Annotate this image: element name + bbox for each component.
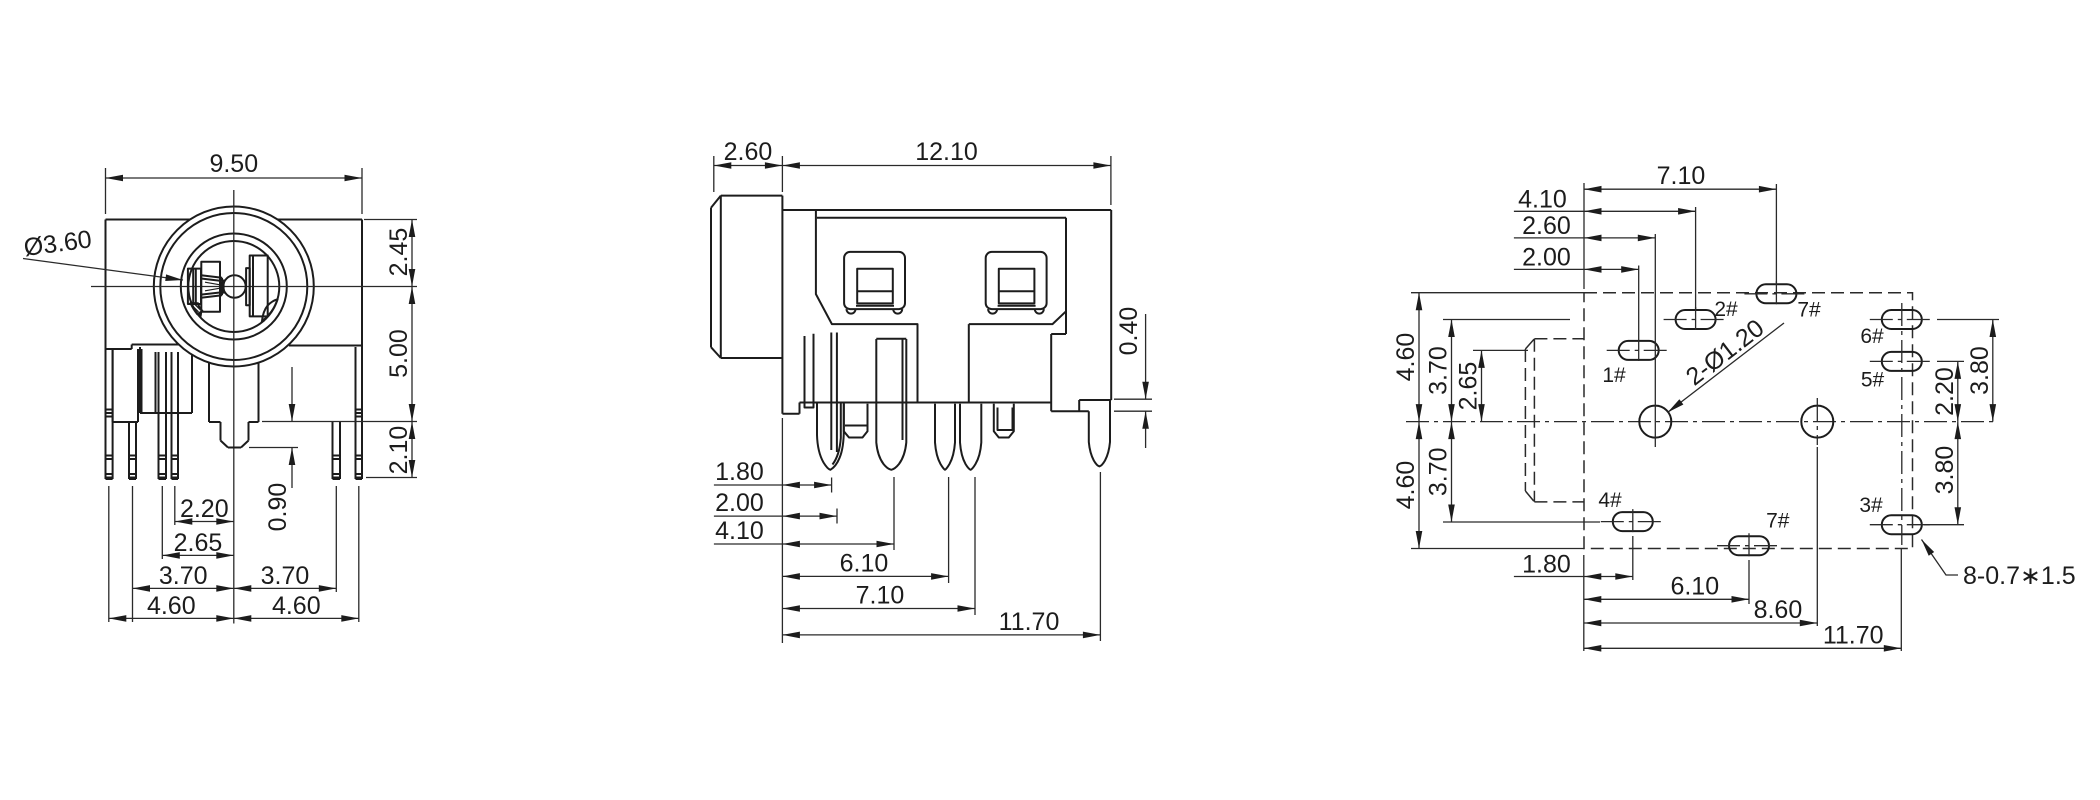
dimension 12.10 (side) — [782, 138, 1111, 205]
dimension 0.40 (side) — [1114, 307, 1152, 448]
dimension 6.10 (side) — [782, 549, 948, 577]
svg-text:2.45: 2.45 — [385, 228, 413, 277]
svg-text:3.70: 3.70 — [1425, 346, 1453, 395]
svg-text:2.20: 2.20 — [180, 495, 229, 523]
dimension 4.60 bottom (footprint) — [1392, 422, 1420, 549]
footprint bottom extension lines — [1584, 447, 1902, 651]
dimension 4.60 left — [109, 592, 234, 620]
dimension 6.10 (footprint) — [1584, 572, 1749, 600]
svg-text:6#: 6# — [1860, 325, 1884, 348]
footprint body dashed outline — [1584, 293, 1913, 549]
footprint horizontal centerline — [1406, 421, 1998, 423]
svg-text:3#: 3# — [1859, 494, 1883, 517]
svg-text:0.40: 0.40 — [1115, 307, 1143, 356]
dimension 2.00 (footprint) — [1514, 243, 1639, 271]
svg-text:11.70: 11.70 — [999, 608, 1060, 636]
svg-text:2.65: 2.65 — [174, 529, 223, 557]
dimension 4.10 (side) — [714, 517, 894, 545]
side collar left — [844, 404, 868, 438]
svg-text:7#: 7# — [1797, 299, 1821, 322]
pad 2# — [1664, 298, 1738, 332]
dimension 3.70 top (footprint) — [1425, 320, 1453, 422]
pad 3# — [1859, 494, 1933, 534]
leader 8-0.7x1.5 — [1922, 540, 2076, 591]
front inner ring inner circle — [188, 241, 279, 332]
dimension 2.20 — [175, 495, 234, 523]
svg-text:12.10: 12.10 — [915, 138, 978, 166]
dimension 1.80 (footprint) — [1514, 551, 1633, 579]
svg-text:2#: 2# — [1714, 298, 1738, 321]
dimension 0.90 — [249, 367, 298, 531]
svg-text:2.00: 2.00 — [1522, 243, 1571, 271]
svg-text:1.80: 1.80 — [1522, 551, 1571, 579]
dimension 7.10 (side) — [782, 582, 975, 610]
dimension 7.10 (footprint) — [1584, 162, 1776, 190]
dimension 11.70 (footprint) — [1584, 621, 1902, 649]
svg-text:1.80: 1.80 — [715, 458, 764, 486]
svg-text:0.90: 0.90 — [264, 483, 292, 532]
side pin E — [1089, 400, 1110, 466]
side bottom extension lines — [782, 418, 1100, 643]
front pin 6 — [356, 346, 363, 480]
front vertical centerline — [233, 190, 235, 624]
right pad column centerline — [1901, 303, 1903, 545]
svg-text:2.10: 2.10 — [385, 426, 413, 475]
svg-text:2.00: 2.00 — [715, 489, 764, 517]
side pin C — [935, 404, 955, 470]
svg-text:5.00: 5.00 — [385, 329, 413, 378]
pad 4# — [1598, 489, 1664, 534]
svg-text:4.60: 4.60 — [272, 592, 321, 620]
front center mounting peg — [209, 363, 259, 448]
pad 1# — [1602, 338, 1670, 387]
dimension 2.20 (footprint) — [1931, 361, 1959, 421]
dimension 1.80 (side) — [714, 458, 832, 486]
front lower-left spring hook — [191, 303, 203, 317]
svg-text:3.70: 3.70 — [159, 562, 208, 590]
dimension 4.10 (footprint) — [1514, 185, 1696, 213]
svg-text:8-0.7∗1.5: 8-0.7∗1.5 — [1963, 562, 2076, 590]
front bottom extension lines — [109, 486, 359, 622]
dimension 8.60 (footprint) — [1584, 596, 1818, 624]
front pin 5 — [333, 422, 341, 480]
dimension 3.80 top (footprint) — [1966, 320, 1994, 422]
front bezel outer circle — [154, 207, 314, 367]
svg-text:6.10: 6.10 — [840, 549, 889, 577]
pad 7# bottom — [1717, 510, 1790, 559]
leader diameter 3.60 — [22, 225, 183, 280]
svg-text:4.60: 4.60 — [147, 592, 196, 620]
side pin B — [876, 339, 906, 470]
dimension 2.10 — [366, 422, 417, 478]
dimension 2.60 (side) — [714, 138, 783, 192]
front pin 1 — [106, 349, 113, 479]
mounting hole circle 1 — [1639, 406, 1671, 438]
svg-text:4#: 4# — [1598, 489, 1622, 512]
dimension 11.70 (side) — [782, 608, 1100, 636]
front pin 2 — [129, 422, 136, 479]
front rear contact plate — [201, 262, 220, 312]
svg-text:9.50: 9.50 — [209, 150, 258, 178]
front pin 4 — [172, 352, 179, 479]
mounting hole circle 2 — [1801, 406, 1833, 438]
side window 2 — [986, 252, 1047, 314]
svg-text:6.10: 6.10 — [1670, 572, 1719, 600]
dimension 4.60 top (footprint) — [1392, 293, 1420, 422]
front right contact block — [246, 256, 278, 322]
dimension 2.65 (footprint) — [1455, 350, 1483, 421]
svg-text:3.80: 3.80 — [1931, 446, 1959, 495]
svg-text:3.70: 3.70 — [1425, 447, 1453, 496]
side collar right — [994, 404, 1014, 438]
side window 1 — [844, 252, 905, 314]
front pin 3 — [159, 352, 167, 479]
dimension 3.80 bottom (footprint) — [1931, 422, 1959, 525]
dimension 2.65 — [162, 529, 234, 557]
dimension 3.70 left — [133, 562, 234, 590]
dimension 2.00 (side) — [714, 489, 837, 517]
side pin A — [817, 403, 844, 470]
front bezel second circle — [160, 213, 307, 360]
svg-text:7.10: 7.10 — [856, 582, 905, 610]
svg-text:2.65: 2.65 — [1455, 362, 1483, 411]
svg-text:2.60: 2.60 — [1522, 212, 1571, 240]
footprint sleeve dashed outline — [1525, 339, 1584, 502]
svg-text:2.20: 2.20 — [1931, 367, 1959, 416]
svg-text:4.60: 4.60 — [1392, 333, 1420, 382]
pad 5# — [1861, 352, 1934, 392]
dimension 2.60 (footprint) — [1514, 212, 1655, 240]
svg-text:7.10: 7.10 — [1657, 162, 1706, 190]
svg-text:7#: 7# — [1766, 510, 1790, 533]
dimension 5.00 — [262, 287, 417, 422]
footprint left reference lines — [1411, 293, 1600, 549]
svg-text:3.80: 3.80 — [1966, 346, 1994, 395]
pad 7# top — [1744, 281, 1821, 321]
svg-text:4.10: 4.10 — [715, 517, 764, 545]
front horizontal centerline — [91, 286, 417, 288]
leader 2-dia 1.20 — [1668, 314, 1785, 412]
dimension 3.70 bottom (footprint) — [1425, 422, 1453, 522]
svg-text:8.60: 8.60 — [1754, 596, 1803, 624]
svg-text:4.10: 4.10 — [1518, 185, 1567, 213]
side body outline — [782, 196, 1111, 414]
dimension 3.70 right — [234, 562, 336, 590]
side sleeve bezel — [711, 196, 782, 358]
front left housing block — [113, 347, 192, 422]
side body bottom edge — [782, 311, 1111, 414]
front body outline — [106, 220, 363, 350]
svg-text:4.60: 4.60 — [1392, 461, 1420, 510]
footprint right reference lines — [1924, 320, 1999, 525]
dimension 9.50 — [106, 150, 363, 214]
circle 2 centerline — [1816, 398, 1818, 445]
footprint top extension lines — [1584, 183, 1776, 447]
svg-text:11.70: 11.70 — [1823, 621, 1884, 649]
svg-text:1#: 1# — [1602, 364, 1626, 387]
side pin D — [960, 404, 981, 470]
dimension 2.45 — [364, 220, 417, 287]
front center ball contact — [223, 275, 245, 297]
svg-text:2.60: 2.60 — [724, 138, 773, 166]
svg-text:3.70: 3.70 — [261, 562, 310, 590]
front inner ring outer circle — [181, 234, 287, 340]
side contact strip lines — [831, 333, 837, 453]
front left spring contact — [188, 269, 224, 304]
dimension 4.60 right — [234, 592, 359, 620]
pad 6# — [1860, 310, 1933, 348]
svg-text:5#: 5# — [1861, 369, 1885, 392]
